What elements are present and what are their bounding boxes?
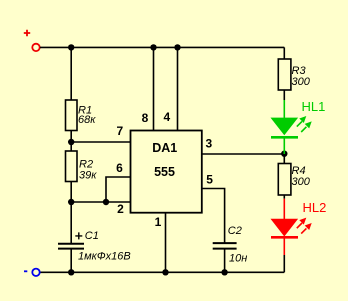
wire R3 to HL1 anode (black part) [283,90,285,100]
wire pin 3 to LED node [202,153,284,155]
svg-text:68к: 68к [78,114,96,126]
LED HL1 (green) [271,118,298,154]
resistor R3 [278,59,291,90]
terminal + (positive supply) [24,30,40,51]
capacitor C2 [213,243,237,249]
resistor R1 [66,100,78,131]
wire top rail to R3 [283,47,285,59]
svg-text:2: 2 [117,202,124,216]
svg-text:7: 7 [117,124,124,138]
node junction R2/C1/pin2 [68,199,74,205]
terminal - (negative supply) [24,269,40,276]
node junction bottom rail / pin 1 [162,269,168,275]
wire C1 to bottom rail [70,249,72,273]
op-amp/timer U1 DA1 555 box [131,131,202,213]
svg-text:1мкФх16В: 1мкФх16В [78,251,131,263]
node junction bottom rail / C1 [68,269,74,275]
svg-text:1: 1 [155,215,162,229]
node junction top rail / R1 [68,44,74,50]
resistor R2 [66,151,78,182]
node junction top rail / pin 4 [174,44,180,50]
emission arrows HL2 [297,218,312,234]
wire pin 5 to C2 [202,189,225,243]
svg-text:HL1: HL1 [302,99,326,114]
wire to pin 6 [106,177,131,202]
svg-text:HL2: HL2 [303,200,327,215]
svg-text:300: 300 [292,176,311,188]
svg-text:3: 3 [206,136,213,150]
capacitor C1 [58,244,84,249]
svg-text:300: 300 [292,76,311,88]
wire pin 1 to bottom rail [165,213,167,273]
wire R4 to HL2 anode (black part) [283,195,285,199]
svg-text:C2: C2 [228,225,242,237]
wire top supply rail [40,46,284,48]
wire rail to R1 [70,47,72,100]
node junction pin3/HL1/R4 [281,151,287,157]
wire node 2 to C1 [70,202,72,243]
wire C2 to bottom rail [224,249,226,273]
wire R1 to node 7 [70,131,72,143]
wire node to R4 [283,154,285,164]
polarity + and label C1 [75,230,99,242]
wire to pin 7 [71,141,130,143]
wire bottom return rail [40,271,284,273]
node junction R1/R2/pin7 [68,139,74,145]
resistor R4 [278,164,291,196]
emission arrows HL1 [297,116,312,132]
wire R4 to HL2 anode (red part) [283,199,285,220]
wire R2 to node 2 [70,182,72,203]
svg-text:4: 4 [163,110,170,124]
svg-text:8: 8 [142,111,149,125]
wire to pin 2 [71,201,130,203]
wire HL2 cathode to bottom rail (black part) [283,255,285,272]
svg-text:5: 5 [206,172,213,186]
svg-text:10н: 10н [229,253,247,265]
wire R3 to HL1 anode (green part) [283,100,285,119]
svg-text:C1: C1 [85,230,99,242]
value label R4 300 [292,165,311,188]
value label R2 39k [79,159,97,182]
node junction pin2/pin6 branch [103,199,109,205]
svg-text:555: 555 [154,165,175,179]
svg-text:DA1: DA1 [152,141,177,155]
svg-text:6: 6 [116,161,123,175]
LED HL2 (red) [271,219,298,255]
value label R3 300 [292,65,311,88]
wire rail to pin 4 [177,47,179,130]
wire rail to pin 8 [153,47,155,130]
value label R1 68k [78,105,96,127]
svg-text:39к: 39к [79,170,97,182]
wire node to R2 [70,142,72,151]
node junction top rail / pin 8 [150,44,156,50]
node junction bottom rail / C2 [221,269,227,275]
